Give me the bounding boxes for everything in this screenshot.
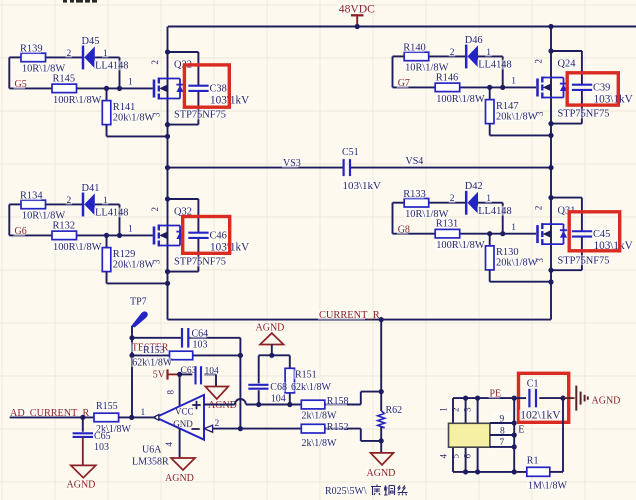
svg-text:R139: R139 (20, 44, 43, 55)
svg-text:VS4: VS4 (406, 156, 424, 167)
svg-text:1: 1 (486, 48, 491, 58)
svg-text:C1: C1 (527, 379, 539, 390)
svg-text:R151: R151 (295, 370, 317, 381)
svg-text:R158: R158 (327, 396, 349, 407)
svg-text:100R\1/8W: 100R\1/8W (436, 94, 485, 105)
svg-text:AGND: AGND (67, 480, 96, 491)
svg-text:2k\1/8W: 2k\1/8W (302, 411, 338, 422)
svg-text:62k\1/8W: 62k\1/8W (132, 357, 173, 368)
svg-text:2: 2 (451, 407, 461, 412)
svg-text:CURRENT_R: CURRENT_R (319, 310, 380, 321)
svg-text:4: 4 (164, 442, 174, 447)
svg-text:103: 103 (94, 442, 109, 453)
svg-text:8: 8 (166, 390, 176, 395)
svg-text:2: 2 (450, 48, 455, 58)
svg-text:G8: G8 (398, 225, 410, 236)
svg-text:R141: R141 (113, 102, 136, 113)
svg-text:2: 2 (450, 194, 455, 204)
svg-text:4: 4 (439, 454, 449, 459)
svg-text:20k\1/8W: 20k\1/8W (496, 111, 538, 122)
svg-text:3: 3 (152, 259, 162, 264)
svg-text:R1: R1 (527, 456, 539, 467)
svg-text:2k\1/8W: 2k\1/8W (302, 438, 338, 449)
svg-text:C51: C51 (342, 147, 359, 158)
svg-text:5V: 5V (153, 369, 166, 380)
svg-text:D42: D42 (465, 181, 483, 192)
svg-text:3: 3 (535, 111, 545, 116)
svg-text:9: 9 (500, 414, 505, 424)
svg-text:AGND: AGND (165, 473, 194, 484)
svg-text:3: 3 (152, 112, 162, 117)
svg-text:48VDC: 48VDC (339, 3, 375, 16)
svg-text:3: 3 (535, 258, 545, 263)
svg-text:R130: R130 (496, 247, 519, 258)
svg-text:LL4148: LL4148 (478, 206, 511, 217)
svg-text:1: 1 (128, 78, 133, 88)
svg-text:2: 2 (150, 207, 160, 212)
svg-text:STP75NF75: STP75NF75 (174, 110, 226, 121)
svg-text:LM358R: LM358R (132, 457, 169, 468)
svg-text:102\1kV: 102\1kV (520, 410, 561, 422)
svg-text:E: E (518, 425, 524, 436)
svg-text:C64: C64 (192, 329, 209, 340)
svg-text:R133: R133 (403, 189, 426, 200)
svg-text:G6: G6 (15, 226, 27, 237)
svg-text:D41: D41 (82, 183, 100, 194)
svg-text:100R\1/8W: 100R\1/8W (53, 242, 102, 253)
svg-text:R62: R62 (386, 405, 403, 416)
svg-text:U6A: U6A (142, 445, 162, 456)
svg-text:C65: C65 (94, 431, 111, 442)
svg-text:1: 1 (128, 225, 133, 235)
svg-text:6: 6 (463, 454, 473, 459)
svg-text:R140: R140 (403, 43, 426, 54)
svg-text:1M\1/8W: 1M\1/8W (528, 481, 567, 492)
svg-text:AGND: AGND (592, 396, 621, 407)
svg-text:R132: R132 (53, 220, 76, 231)
svg-text:2: 2 (67, 196, 72, 206)
svg-text:1: 1 (486, 194, 491, 204)
svg-text:D45: D45 (82, 36, 100, 47)
svg-text:C38: C38 (210, 84, 227, 95)
svg-text:1: 1 (103, 49, 108, 59)
svg-text:2: 2 (534, 206, 544, 211)
svg-text:PE: PE (490, 389, 502, 400)
svg-text:STP75NF75: STP75NF75 (558, 255, 610, 266)
svg-text:2: 2 (534, 59, 544, 64)
svg-text:104: 104 (271, 393, 286, 404)
svg-text:2: 2 (67, 49, 72, 59)
svg-text:TP7: TP7 (130, 297, 147, 308)
svg-text:C46: C46 (210, 231, 227, 242)
svg-text:1: 1 (439, 407, 449, 412)
svg-text:R152: R152 (327, 422, 349, 433)
svg-text:100R\1/8W: 100R\1/8W (53, 95, 102, 106)
svg-text:LL4148: LL4148 (95, 61, 128, 72)
svg-text:AGND: AGND (256, 323, 285, 334)
svg-text:62k\1/8W: 62k\1/8W (291, 382, 332, 393)
svg-text:3: 3 (463, 407, 473, 412)
svg-text:G7: G7 (398, 78, 410, 89)
svg-text:2: 2 (215, 419, 220, 429)
svg-text:VCC: VCC (175, 407, 194, 417)
svg-text:20k\1/8W: 20k\1/8W (113, 112, 155, 123)
svg-text:5: 5 (451, 454, 461, 459)
svg-text:20k\1/8W: 20k\1/8W (113, 259, 155, 270)
svg-text:R145: R145 (53, 73, 76, 84)
svg-text:VS3: VS3 (283, 158, 301, 169)
svg-text:R025\5W\: R025\5W\ (325, 486, 367, 497)
svg-text:G5: G5 (15, 79, 27, 90)
svg-text:C39: C39 (593, 83, 610, 94)
svg-text:1: 1 (103, 196, 108, 206)
svg-text:R155: R155 (96, 401, 118, 412)
svg-text:STP75NF75: STP75NF75 (174, 257, 226, 268)
svg-text:8: 8 (500, 426, 505, 436)
svg-text:R134: R134 (20, 191, 43, 202)
svg-text:GND: GND (173, 419, 193, 429)
svg-text:103\1kV: 103\1kV (343, 180, 382, 192)
svg-text:AGND: AGND (208, 400, 237, 411)
svg-text:D46: D46 (465, 35, 483, 46)
svg-text:C63: C63 (181, 366, 197, 376)
svg-text:1: 1 (511, 77, 516, 87)
svg-text:LL4148: LL4148 (95, 208, 128, 219)
svg-text:R147: R147 (496, 101, 519, 112)
svg-text:103: 103 (193, 340, 208, 351)
svg-text:100R\1/8W: 100R\1/8W (436, 240, 485, 251)
svg-text:1: 1 (511, 223, 516, 233)
svg-text:R129: R129 (113, 249, 136, 260)
svg-text:AGND: AGND (367, 468, 396, 479)
svg-text:R131: R131 (436, 219, 459, 230)
svg-text:STP75NF75: STP75NF75 (558, 109, 610, 120)
svg-text:LL4148: LL4148 (478, 60, 511, 71)
svg-text:20k\1/8W: 20k\1/8W (496, 258, 538, 269)
svg-text:2: 2 (150, 60, 160, 65)
svg-text:7: 7 (500, 438, 505, 448)
svg-text:C68: C68 (270, 382, 287, 393)
svg-text:C45: C45 (593, 229, 610, 240)
svg-text:R146: R146 (436, 72, 459, 83)
svg-text:R153: R153 (143, 345, 165, 356)
svg-text:Q24: Q24 (558, 59, 577, 70)
